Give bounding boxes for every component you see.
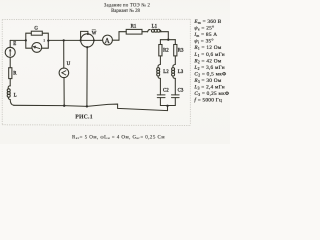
svg-text:ψe = 25°: ψe = 25°	[194, 25, 214, 32]
svg-text:E: E	[13, 42, 16, 47]
svg-text:L2: L2	[163, 70, 169, 75]
svg-text:L1: L1	[152, 24, 158, 29]
svg-text:C3: C3	[178, 88, 184, 93]
svg-text:Вариант № 28: Вариант № 28	[111, 8, 140, 14]
svg-text:Rкт= 5 Ом, ωLм = 4 Ом, Gкг= 0,: Rкт= 5 Ом, ωLм = 4 Ом, Gкг= 0,25 См	[72, 135, 165, 140]
svg-text:Задание по ТОЭ № 2: Задание по ТОЭ № 2	[104, 3, 151, 9]
svg-text:L3: L3	[178, 70, 184, 75]
svg-text:РИС.1: РИС.1	[75, 115, 93, 121]
svg-text:Em = 360 В: Em = 360 В	[193, 19, 221, 25]
svg-text:A: A	[105, 37, 110, 45]
svg-text:R2 = 42 Ом: R2 = 42 Ом	[193, 58, 221, 64]
svg-text:R3: R3	[178, 48, 184, 53]
svg-text:W: W	[92, 31, 97, 36]
svg-text:R1: R1	[131, 25, 137, 30]
svg-text:f = 5000 Гц: f = 5000 Гц	[194, 97, 222, 104]
svg-text:G: G	[34, 27, 38, 32]
svg-text:C2: C2	[163, 88, 169, 93]
svg-text:U: U	[67, 62, 71, 67]
svg-text:R1 = 12 Ом: R1 = 12 Ом	[193, 45, 221, 51]
svg-text:C3 = 0,25 мкФ: C3 = 0,25 мкФ	[194, 91, 229, 97]
svg-text:R3 = 30 Ом: R3 = 30 Ом	[193, 78, 221, 84]
svg-text:ψi = 35°: ψi = 35°	[194, 38, 213, 45]
svg-text:L: L	[14, 94, 17, 99]
svg-text:R2: R2	[163, 48, 169, 53]
